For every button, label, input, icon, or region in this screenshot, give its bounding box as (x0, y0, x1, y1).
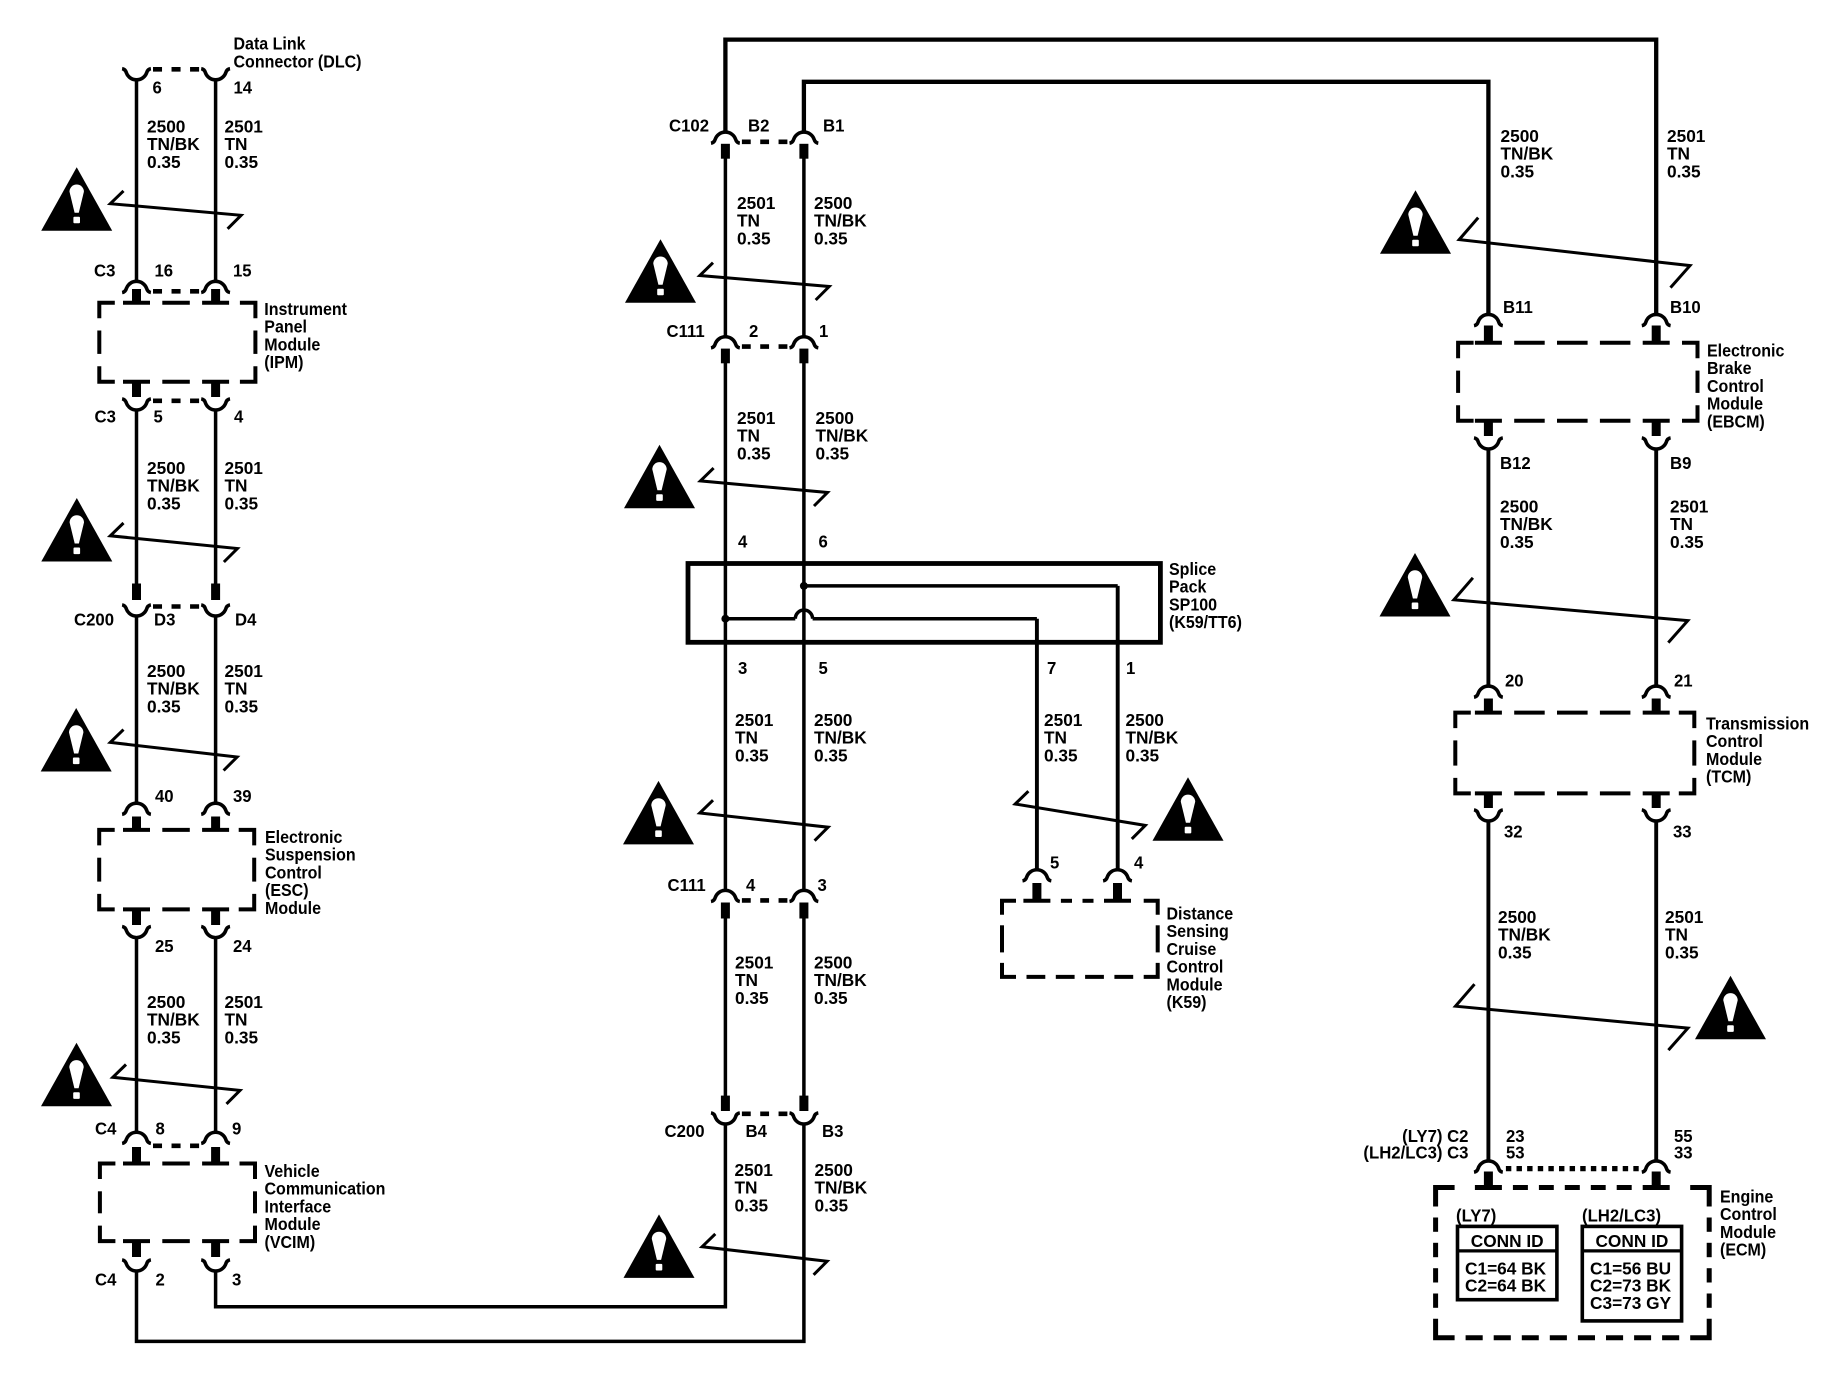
VCIM pins 2/3 (132, 1241, 141, 1257)
svg-text:25: 25 (155, 936, 174, 957)
Instrument Panel Module (IPM) box (99, 303, 115, 319)
svg-text:1: 1 (819, 320, 829, 341)
wire: EBCM B12 to TCM 20 (2500 TN/BK) (1486, 449, 1490, 686)
break line (K59 wires) (1015, 791, 1145, 839)
svg-text:B12: B12 (1500, 452, 1531, 473)
ESC module pins 25/24 (132, 909, 141, 925)
svg-text:4: 4 (1134, 852, 1144, 873)
ECM module pins 53/33 with dotted connector line (1474, 1161, 1503, 1172)
wire: EBCM B9 to TCM 21 (2501 TN) (1654, 449, 1658, 686)
svg-text:2: 2 (749, 320, 758, 341)
wire: TCM 32 to ECM 23/53 (1486, 821, 1490, 1161)
wire: IPM 4 to C200 D4 (214, 410, 218, 585)
svg-text:6: 6 (819, 531, 829, 552)
wire: TCM 33 to ECM 55/33 (1654, 821, 1658, 1161)
splice pack internal: junction on wire 4-3 to pin 7, with hop (725, 617, 795, 621)
svg-text:B10: B10 (1670, 296, 1701, 317)
wire: C111 1 through splice pack to C111 3 (802, 363, 806, 891)
svg-text:3: 3 (818, 874, 828, 895)
svg-text:53: 53 (1506, 1142, 1525, 1163)
svg-text:7: 7 (1047, 657, 1056, 678)
svg-text:3: 3 (738, 657, 748, 678)
warning triangle (IPM-C200) (41, 498, 112, 562)
connector C111 pins 2/1 (711, 337, 740, 348)
wire: splice pin 7 to K59 5 (2501 TN) (1035, 619, 1039, 870)
svg-text:(LH2/LC3) C3: (LH2/LC3) C3 (1363, 1142, 1468, 1163)
CONN ID table (LY7) (1458, 1226, 1557, 1299)
wire: upper bus C102 B1 to EBCM B11 (2500 TN/BK) (804, 82, 1489, 315)
warning triangle (EBCM top) (1380, 190, 1451, 254)
warning triangle (C200-ESC) (41, 708, 112, 772)
wire: C111 2 through splice pack to C111 4 (724, 363, 728, 891)
splice pack internal: junction on wire 6-5 to pin 1 (804, 584, 1118, 588)
svg-text:33: 33 (1673, 821, 1692, 842)
warning triangle (ESC-VCIM) (41, 1043, 112, 1107)
svg-text:4: 4 (746, 874, 756, 895)
Splice Pack SP100 box (688, 564, 1160, 643)
svg-text:4: 4 (234, 406, 244, 427)
wire: VCIM 2 routed to C200 B3 (bottom run) (137, 1125, 804, 1341)
wire: DLC 14 to IPM 15 (2501 TN) (214, 80, 218, 282)
svg-text:6: 6 (153, 77, 163, 98)
connector C200 pins B4/B3 (721, 1096, 730, 1111)
connector C102 pins B2/B1 (711, 132, 740, 143)
svg-text:1: 1 (1126, 657, 1136, 678)
TCM module pins 32/33 (1484, 793, 1493, 808)
TCM module pins 20/21 (1474, 686, 1503, 697)
break line (SP100-C111) (700, 800, 828, 841)
svg-text:5: 5 (1050, 852, 1060, 873)
svg-text:20: 20 (1505, 670, 1524, 691)
CONN ID table (LH2/LC3) (1582, 1226, 1681, 1321)
connector C3 pins 5/4 (IPM bottom) (132, 382, 141, 397)
connector DLC pins 6/14 (122, 69, 151, 80)
svg-text:4: 4 (738, 531, 748, 552)
svg-text:3: 3 (232, 1269, 242, 1290)
svg-text:C3: C3 (94, 260, 116, 281)
svg-text:2: 2 (156, 1269, 165, 1290)
svg-text:C1=56 BUC2=73 BKC3=73 GY: C1=56 BUC2=73 BKC3=73 GY (1590, 1258, 1671, 1313)
svg-text:C1=64 BKC2=64 BK: C1=64 BKC2=64 BK (1465, 1258, 1546, 1296)
break line (EBCM-TCM) (1454, 578, 1688, 643)
connector C111 pins 4/3 (711, 890, 740, 901)
svg-text:9: 9 (232, 1118, 242, 1139)
svg-text:C111: C111 (668, 874, 706, 895)
svg-text:C111: C111 (667, 320, 705, 341)
svg-text:B1: B1 (823, 115, 845, 136)
svg-text:(LY7): (LY7) (1456, 1205, 1496, 1226)
wire: ESC 25 to VCIM 8 (135, 938, 139, 1133)
break line (C200-ESC) (110, 730, 237, 771)
wire: C102 B2 to C111 2 (724, 158, 728, 337)
wire: C111 4 to C200 B4 (724, 918, 728, 1096)
break line (DLC-IPM) (110, 191, 241, 229)
wire: C111 3 to C200 B3 (802, 918, 806, 1096)
svg-text:C102: C102 (669, 115, 709, 136)
warning triangle (DLC-IPM) (41, 167, 112, 231)
svg-text:(LH2/LC3): (LH2/LC3) (1582, 1205, 1661, 1226)
warning triangle (C111-SP100) (624, 445, 695, 509)
svg-text:32: 32 (1504, 821, 1523, 842)
warning triangle (SP100-C111 left) (623, 781, 694, 845)
wire: C200 D4 to ESC 39 (214, 616, 218, 803)
svg-text:D4: D4 (235, 609, 257, 630)
svg-text:15: 15 (233, 260, 252, 281)
svg-text:D3: D3 (154, 609, 176, 630)
svg-text:B3: B3 (822, 1120, 844, 1141)
wire: C102 B1 to C111 1 (802, 158, 806, 337)
svg-text:C200: C200 (665, 1120, 705, 1141)
splice junction dot (pin 1 branch) (800, 582, 808, 590)
svg-text:16: 16 (155, 260, 174, 281)
ECM box (1436, 1188, 1455, 1207)
connector C4 pins 8/9 (VCIM top) (122, 1132, 151, 1143)
svg-text:14: 14 (234, 77, 253, 98)
splice junction dot (pin 7 branch) (721, 615, 729, 623)
wire: ESC 24 to VCIM 9 (214, 938, 218, 1133)
break line (ESC-VCIM) (113, 1065, 240, 1104)
wire: VCIM 3 routed to C200 B4 (bottom run) (216, 1125, 726, 1307)
wire: top bus C102 B2 to EBCM B10 (2501 TN) (725, 40, 1656, 315)
wire: splice pin 1 to K59 4 (2500 TN/BK) (1116, 586, 1120, 870)
connector C200 pins D3/D4 (132, 584, 141, 601)
EBCM module pins B11/B10 (1474, 314, 1503, 325)
svg-text:21: 21 (1674, 670, 1693, 691)
svg-text:CONN ID: CONN ID (1471, 1231, 1544, 1251)
svg-text:C4: C4 (95, 1269, 117, 1290)
svg-text:C200: C200 (74, 609, 114, 630)
break line (TCM-ECM) (1456, 984, 1688, 1050)
break line (C111-SP100) (700, 468, 827, 506)
wire: IPM 5 to C200 D3 (135, 410, 139, 585)
svg-text:B9: B9 (1670, 452, 1692, 473)
break line (EBCM top) (1459, 218, 1690, 288)
warning triangle (EBCM-TCM) (1380, 553, 1451, 617)
svg-text:B4: B4 (746, 1120, 768, 1141)
svg-text:CONN ID: CONN ID (1595, 1231, 1668, 1251)
svg-text:C4: C4 (95, 1118, 117, 1139)
ESC Module box (99, 830, 115, 846)
svg-text:B11: B11 (1503, 296, 1533, 317)
warning triangle (C102-C111) (625, 239, 696, 303)
EBCM box (1458, 343, 1474, 359)
TCM box (1455, 713, 1471, 729)
svg-text:33: 33 (1674, 1142, 1693, 1163)
svg-text:B2: B2 (748, 115, 769, 136)
svg-text:5: 5 (154, 406, 164, 427)
warning triangle (K59 wires) (1153, 777, 1224, 841)
svg-text:24: 24 (233, 936, 252, 957)
VCIM box (100, 1164, 116, 1180)
svg-text:5: 5 (819, 657, 829, 678)
svg-text:39: 39 (233, 785, 252, 806)
K59 Distance Sensing Cruise Control Module box (1002, 901, 1016, 915)
ESC module pins 40/39 (122, 803, 151, 814)
K59 module pins 5/4 (1023, 870, 1052, 881)
break line (C200 B4/B3) (702, 1234, 827, 1275)
wire: DLC 6 to IPM 16 (2500 TN/BK) (135, 80, 139, 282)
svg-text:40: 40 (155, 785, 174, 806)
wire: C200 D3 to ESC 40 (135, 616, 139, 803)
break line (C102-C111) (700, 263, 829, 300)
break line (IPM-C200) (110, 523, 237, 562)
warning triangle (TCM-ECM) (1695, 976, 1766, 1040)
EBCM module pins B12/B9 (1484, 421, 1493, 436)
svg-text:C3: C3 (95, 406, 117, 427)
connector C3 pins 16/15 (IPM top) (122, 281, 151, 292)
warning triangle (C200 B4/B3) (624, 1214, 695, 1278)
svg-text:8: 8 (156, 1118, 166, 1139)
